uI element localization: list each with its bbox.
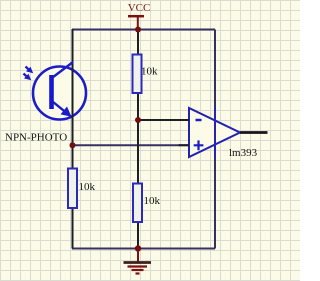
svg-text:10k: 10k	[141, 66, 158, 78]
light arrow 2	[24, 74, 29, 78]
phototransistor Q1 body circle	[33, 67, 86, 120]
resistor R2 10k left	[68, 169, 77, 209]
phototransistor base bar	[49, 75, 54, 109]
wire left rail	[72, 29, 74, 249]
wire output	[240, 131, 268, 134]
light arrow 1	[26, 67, 31, 71]
op-amp minus sign	[196, 119, 202, 122]
VCC power bar	[128, 15, 144, 18]
wire plus input	[72, 144, 189, 146]
resistor R1 10k top middle	[133, 55, 142, 94]
wire right rail blue segment over op-amp	[214, 107, 216, 159]
phototransistor emitter arrowhead	[61, 107, 72, 117]
ground bar 4	[136, 272, 140, 274]
op-amp plus sign	[194, 140, 204, 150]
junction dot ground node	[135, 245, 141, 251]
junction dot VCC node	[135, 27, 141, 33]
op-amp U1 lm393 triangle	[189, 108, 240, 157]
ground bar 2	[128, 265, 148, 267]
wire minus input	[138, 119, 189, 121]
svg-text:lm393: lm393	[229, 147, 258, 159]
svg-text:10k: 10k	[144, 195, 161, 207]
op-amp plus input pin stub	[179, 144, 190, 146]
junction dot plus node	[70, 142, 76, 148]
phototransistor emitter stroke	[53, 102, 71, 117]
ground bar 3	[132, 269, 144, 271]
junction dot minus node	[135, 117, 141, 123]
svg-text:NPN-PHOTO: NPN-PHOTO	[5, 132, 67, 144]
ground bar 1	[124, 261, 152, 264]
svg-text:VCC: VCC	[128, 2, 151, 14]
wire right rail	[214, 30, 216, 249]
phototransistor collector stroke	[53, 62, 74, 78]
wire top rail	[72, 29, 215, 31]
wire bottom rail	[72, 248, 215, 250]
resistor R3 10k lower middle	[133, 184, 142, 223]
ground stub	[137, 248, 139, 262]
svg-text:10k: 10k	[79, 181, 96, 193]
VCC stub	[137, 16, 139, 29]
wire middle branch	[137, 29, 139, 249]
